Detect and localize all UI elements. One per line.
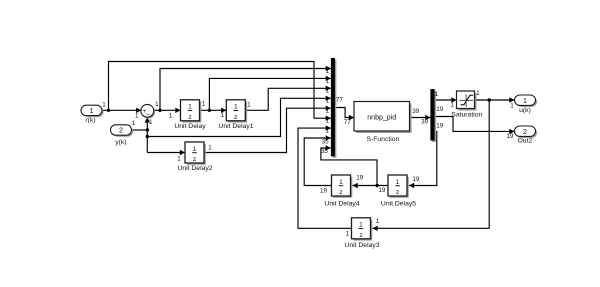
node junction on sum output [158, 109, 161, 112]
wire vertical below sum [145, 117, 150, 152]
output port Out2 [515, 126, 538, 145]
wire into Unit Delay2 [147, 150, 185, 155]
svg-text:19: 19 [412, 176, 420, 183]
svg-text:77: 77 [336, 97, 344, 104]
svg-text:19: 19 [436, 106, 444, 113]
svg-text:1: 1 [376, 218, 380, 225]
wire Unit Delay3 output to mux port 7 [298, 125, 352, 228]
wire mux output to S-Function [335, 108, 354, 121]
wire demux out2 to Out2 [435, 117, 515, 135]
svg-text:19: 19 [506, 133, 514, 140]
wire Unit Delay1 output to mux port 3 [245, 86, 331, 111]
svg-text:1: 1 [247, 101, 251, 108]
wire y(k) to junction [132, 129, 148, 131]
svg-text:S-Function: S-Function [366, 136, 399, 143]
svg-text:−: − [145, 110, 150, 119]
wire demux out1 to Saturation [435, 97, 457, 102]
wire Unit Delay4 output to mux port 8 [304, 135, 331, 185]
sum block [141, 104, 155, 118]
node junction between Unit Delay and Unit Delay1 [208, 109, 211, 112]
svg-text:1: 1 [326, 78, 330, 85]
block Unit Delay [174, 100, 206, 130]
svg-text:Unit Delay1: Unit Delay1 [218, 123, 253, 130]
wire demux out3 to Unit Delay5 [409, 132, 437, 189]
svg-text:1: 1 [326, 68, 330, 75]
input port y(k) [111, 125, 134, 146]
svg-text:1: 1 [149, 119, 153, 126]
S-Function block nnbp_pid [354, 102, 412, 143]
node junction branch to mux port 4 [146, 135, 149, 138]
node junction on r(k) wire [107, 109, 110, 112]
block Unit Delay4 [324, 175, 359, 207]
wire Unit Delay5 to Unit Delay4 [353, 183, 389, 188]
svg-text:19: 19 [436, 123, 444, 130]
svg-text:39: 39 [421, 119, 429, 126]
svg-text:1: 1 [346, 231, 350, 238]
svg-text:35: 35 [322, 139, 330, 146]
svg-text:1: 1 [132, 120, 136, 127]
svg-text:1: 1 [326, 88, 330, 95]
node junction on saturation output [488, 98, 491, 101]
svg-text:1: 1 [326, 117, 330, 124]
node junction on UD5-UD4 wire [375, 184, 378, 187]
wire row A: r(k) junction up and across to mux port 6 [109, 62, 331, 121]
svg-text:35: 35 [321, 148, 329, 155]
block Unit Delay2 [177, 142, 212, 172]
svg-text:77: 77 [344, 119, 352, 126]
wire u(k) feedback down to Unit Delay3 [373, 100, 490, 231]
svg-text:y(k): y(k) [115, 139, 126, 146]
svg-text:2: 2 [523, 129, 527, 136]
mux block [331, 58, 337, 158]
svg-text:19: 19 [356, 175, 364, 182]
svg-text:1: 1 [177, 156, 181, 163]
svg-text:1: 1 [90, 108, 94, 115]
wire r(k) to sum [102, 108, 141, 113]
svg-text:r(k): r(k) [85, 117, 95, 124]
svg-text:1: 1 [155, 101, 159, 108]
svg-text:1: 1 [221, 112, 225, 119]
svg-text:1: 1 [435, 91, 439, 98]
wire branch to mux port 4 [147, 96, 331, 137]
svg-text:Saturation: Saturation [451, 112, 482, 119]
svg-text:1: 1 [523, 98, 527, 105]
svg-text:1: 1 [102, 101, 106, 108]
svg-text:1: 1 [451, 102, 455, 109]
wire row C: junction up to mux port 2 [209, 76, 331, 111]
node junction y(k) [146, 128, 149, 131]
wire Unit Delay to Unit Delay1 [200, 108, 227, 113]
svg-text:1: 1 [208, 145, 212, 152]
block Unit Delay1 [218, 100, 253, 130]
svg-text:1: 1 [202, 101, 206, 108]
svg-text:1: 1 [326, 127, 330, 134]
svg-text:Unit Delay: Unit Delay [174, 123, 206, 130]
svg-text:1: 1 [326, 98, 330, 105]
svg-text:u(k): u(k) [519, 107, 531, 114]
saturation block [451, 91, 482, 119]
svg-text:39: 39 [412, 108, 420, 115]
block Unit Delay5 [381, 175, 416, 207]
demux block [430, 89, 436, 142]
svg-text:nnbp_pid: nnbp_pid [367, 114, 396, 121]
svg-text:1: 1 [169, 113, 173, 120]
svg-text:1: 1 [135, 113, 139, 120]
svg-text:Unit Delay3: Unit Delay3 [344, 242, 379, 249]
signal width labels [102, 68, 514, 238]
svg-text:Unit Delay2: Unit Delay2 [177, 165, 212, 172]
wire sum to Unit Delay [153, 108, 180, 113]
input port r(k) [81, 105, 104, 124]
svg-text:Out2: Out2 [518, 138, 533, 145]
svg-text:2: 2 [119, 128, 123, 135]
wire row B: sum output up to mux port 1 [160, 66, 331, 111]
svg-text:Unit Delay4: Unit Delay4 [324, 200, 359, 207]
svg-text:Unit Delay5: Unit Delay5 [381, 200, 416, 207]
svg-text:19: 19 [320, 187, 328, 194]
wire S-Function to demux [410, 115, 431, 120]
block Unit Delay3 [344, 218, 379, 249]
output port u(k) [515, 95, 538, 114]
svg-text:19: 19 [378, 187, 386, 194]
svg-text:1: 1 [476, 90, 480, 97]
svg-text:1: 1 [510, 103, 514, 110]
svg-text:1: 1 [326, 108, 330, 115]
wire Saturation to u(k) [475, 97, 515, 102]
wire Unit Delay2 output to mux port 5 [204, 106, 331, 153]
wire junction up to mux port 9 [321, 145, 377, 185]
